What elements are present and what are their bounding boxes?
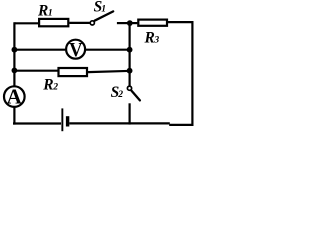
wire bottom right segment <box>169 124 193 126</box>
svg-text:2: 2 <box>117 89 123 100</box>
svg-text:R: R <box>37 2 48 19</box>
voltmeter V <box>66 39 85 61</box>
node mid R2 junction dot <box>127 68 133 74</box>
svg-text:A: A <box>7 84 23 108</box>
ammeter A <box>4 84 25 108</box>
wire R1 to S1 <box>69 22 89 24</box>
wire J1 to R3 <box>130 22 138 24</box>
battery <box>61 108 69 131</box>
node left R2 junction dot <box>12 68 18 74</box>
switch S1 <box>90 0 113 25</box>
resistor R1 <box>37 2 68 26</box>
wire R3 to top-right corner <box>168 22 192 125</box>
svg-text:1: 1 <box>48 8 53 19</box>
svg-text:R: R <box>144 29 155 46</box>
wire S2 lower terminal <box>129 103 131 124</box>
resistor R3 <box>138 20 167 47</box>
node left voltmeter junction dot <box>12 47 18 53</box>
svg-text:1: 1 <box>101 4 106 15</box>
wire voltmeter branch right <box>86 49 130 51</box>
wire voltmeter branch left <box>14 49 65 51</box>
svg-text:V: V <box>69 39 82 61</box>
switch S2 <box>111 84 140 101</box>
wire middle vertical rail <box>129 23 131 86</box>
wire top-left segment <box>15 22 40 24</box>
resistor R2 <box>42 68 87 93</box>
wire R2 branch right <box>88 71 130 72</box>
node mid voltmeter junction dot <box>127 47 133 53</box>
svg-text:3: 3 <box>153 35 159 46</box>
wire bottom left segment <box>13 122 61 124</box>
wire left rail bottom <box>13 107 15 125</box>
node J1 junction dot <box>127 20 133 26</box>
wire bottom middle segment <box>69 122 170 124</box>
wire left rail top <box>13 22 15 86</box>
svg-text:R: R <box>42 76 53 93</box>
wire R2 branch left <box>14 70 57 72</box>
svg-text:2: 2 <box>52 82 58 93</box>
wire S1 to node J1 <box>117 22 130 24</box>
